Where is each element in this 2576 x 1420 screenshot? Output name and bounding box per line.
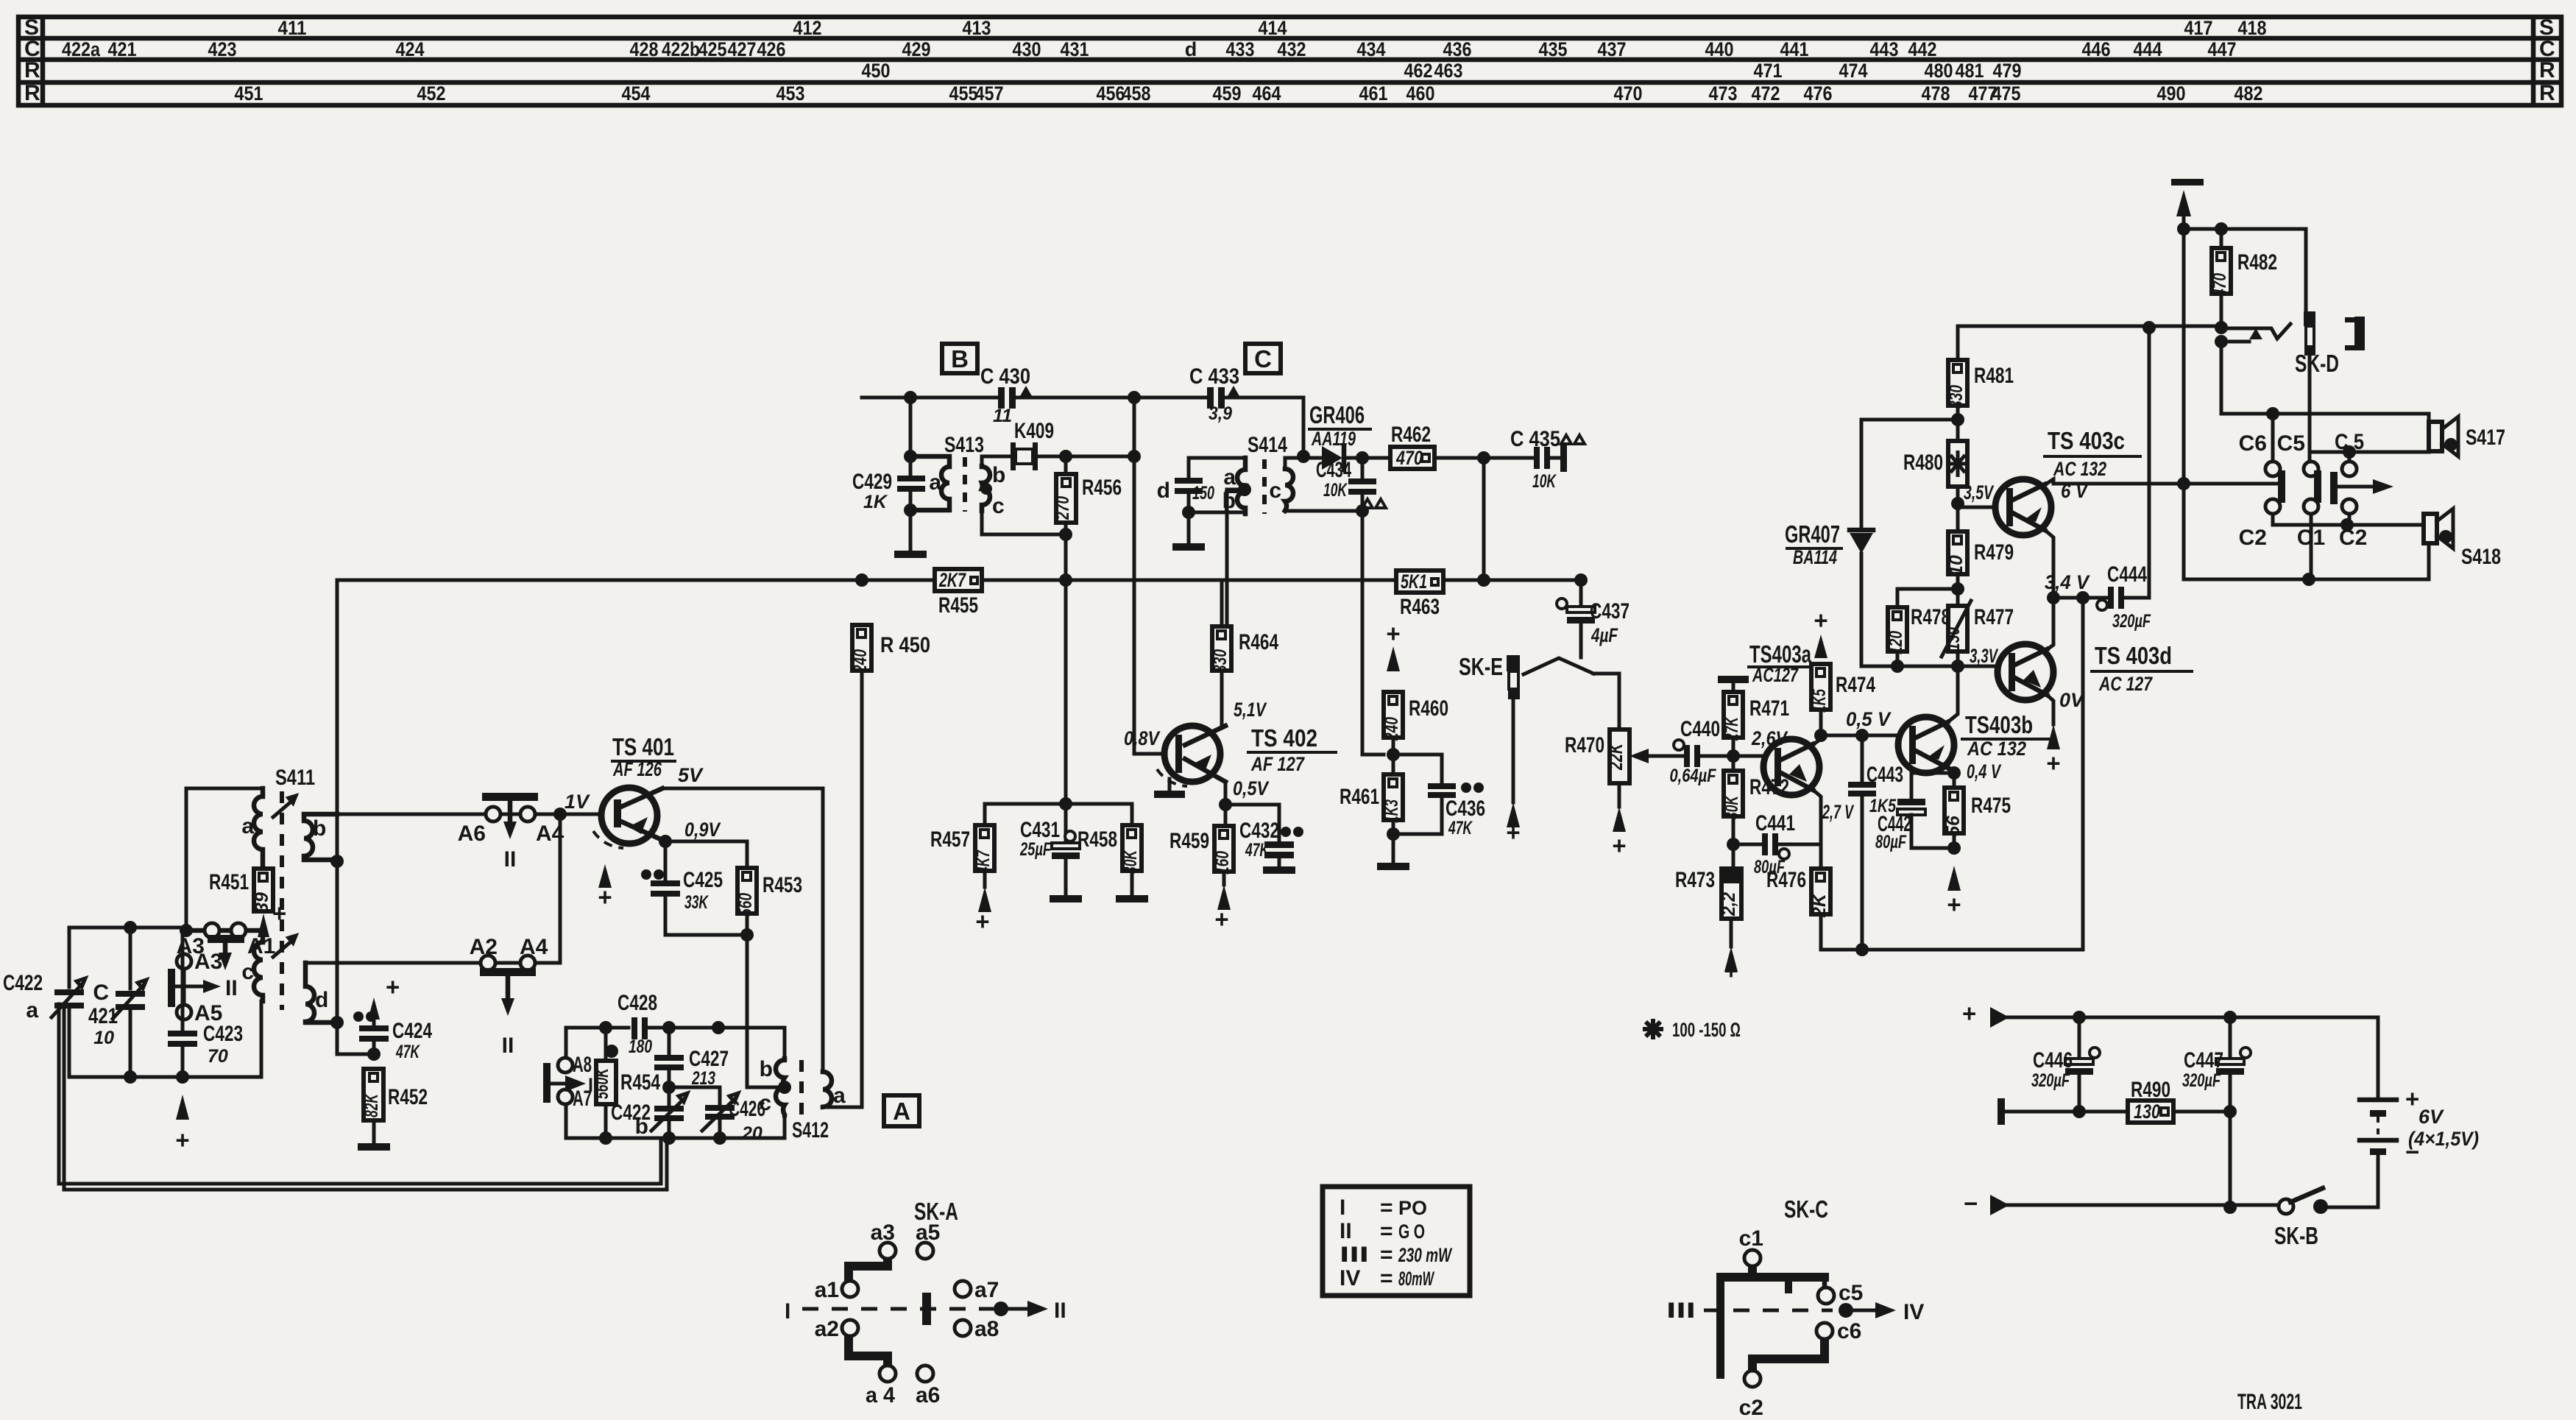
svg-text:476: 476 — [1804, 82, 1833, 105]
diode GR406 (AA119) — [1303, 401, 1370, 470]
svg-text:490: 490 — [2157, 82, 2186, 105]
svg-text:B: B — [951, 345, 969, 372]
svg-text:+: + — [1386, 620, 1400, 647]
potentiometer R477 — [1942, 601, 2014, 657]
resistor R452 — [361, 1069, 428, 1143]
svg-text:3,3V: 3,3V — [1970, 645, 1998, 667]
jack SK-D plug — [2295, 311, 2365, 377]
svg-text:80mW: 80mW — [1398, 1268, 1435, 1290]
svg-text:3,4 V: 3,4 V — [2045, 571, 2090, 593]
capacitor C443 — [1848, 735, 1903, 950]
svg-text:I: I — [1340, 1195, 1345, 1220]
svg-text:SK-C: SK-C — [1784, 1195, 1828, 1223]
svg-text:0,4 V: 0,4 V — [1967, 760, 2001, 783]
svg-text:436: 436 — [1443, 38, 1472, 60]
svg-text:10: 10 — [93, 1028, 114, 1048]
supply arrow below R475 — [1947, 866, 1961, 892]
svg-text:C: C — [1254, 345, 1272, 372]
svg-text:+: + — [272, 900, 286, 927]
svg-text:+: + — [2405, 1085, 2419, 1112]
wire: R478 branch — [1897, 589, 1958, 607]
svg-text:C440: C440 — [1680, 717, 1720, 741]
electrolytic capacitor C436 — [1393, 755, 1485, 838]
svg-text:A: A — [893, 1098, 910, 1125]
svg-text:+: + — [1612, 832, 1626, 859]
connector C5 right — [2342, 462, 2357, 476]
svg-text:R471: R471 — [1749, 696, 1789, 721]
svg-text:429: 429 — [902, 38, 931, 60]
svg-text:0,8V: 0,8V — [1124, 727, 1161, 749]
resistor R462 (470) — [1362, 423, 1484, 580]
svg-text:SK-E: SK-E — [1459, 653, 1503, 680]
svg-text:+: + — [175, 1126, 189, 1154]
svg-text:R480: R480 — [1903, 451, 1943, 475]
svg-text:39: 39 — [252, 892, 272, 913]
svg-text:R457: R457 — [930, 827, 970, 852]
capacitor C427 — [654, 1028, 729, 1104]
oscillator loop bottom rail — [566, 1119, 785, 1138]
svg-text:2,2: 2,2 — [1719, 892, 1739, 916]
svg-text:464: 464 — [1253, 82, 1281, 105]
svg-text:451: 451 — [235, 82, 263, 105]
supply arrow below R457 — [978, 887, 991, 912]
connector C6 — [2265, 462, 2280, 476]
svg-text:c1: c1 — [1739, 1226, 1763, 1251]
svg-text:C444: C444 — [2107, 562, 2147, 587]
svg-text:25µF: 25µF — [1019, 839, 1051, 860]
svg-text:S414: S414 — [1248, 433, 1287, 457]
resistor R474 — [1809, 664, 1875, 735]
svg-text:R 450: R 450 — [880, 633, 930, 657]
svg-text:R476: R476 — [1766, 868, 1806, 892]
switch SK-B — [2274, 1188, 2328, 1249]
wire: C431 rail — [985, 802, 1132, 806]
transistor TS403b — [1898, 711, 2053, 773]
svg-text:444: 444 — [2134, 38, 2162, 60]
svg-text:475: 475 — [1992, 82, 2021, 105]
svg-text:IV: IV — [1340, 1266, 1360, 1290]
transformer S412 coils b/c — [776, 1059, 785, 1115]
minus terminal feeding top rail — [2171, 179, 2204, 186]
wire: TS403a base — [1731, 755, 1764, 758]
svg-text:3,9: 3,9 — [1209, 403, 1232, 424]
svg-text:TRA 3021: TRA 3021 — [2237, 1390, 2302, 1414]
selector bar arrow II at A8/A7 — [543, 1063, 551, 1103]
resistor R475 — [1943, 788, 2011, 848]
svg-text:−: − — [2405, 1138, 2419, 1165]
svg-text:AC 132: AC 132 — [1967, 738, 2026, 760]
switch contact A3/A1 — [205, 923, 219, 938]
terminal T bar mid rail — [1998, 1098, 2005, 1125]
svg-text:461: 461 — [1359, 82, 1388, 105]
capacitor C441 — [1733, 811, 1820, 877]
svg-text:482: 482 — [2234, 82, 2263, 105]
transformer S413 coils b/c — [982, 466, 990, 511]
svg-text:150: 150 — [1192, 483, 1214, 504]
wire: TS403b emitter node — [1945, 764, 1954, 788]
svg-text:S418: S418 — [2461, 545, 2501, 569]
wire: speaker S417 bottom line — [2349, 451, 2429, 454]
svg-text:AA119: AA119 — [1311, 428, 1356, 450]
svg-text:454: 454 — [622, 82, 651, 105]
svg-text:10K: 10K — [1532, 471, 1557, 492]
svg-text:422a: 422a — [62, 38, 101, 60]
switch diagram SK-C — [1666, 1195, 1924, 1420]
svg-text:4K7: 4K7 — [973, 849, 994, 874]
svg-text:440: 440 — [1705, 38, 1734, 60]
svg-text:R460: R460 — [1409, 696, 1448, 721]
svg-text:a: a — [241, 814, 254, 838]
battery 6V — [2360, 1085, 2479, 1207]
svg-text:453: 453 — [776, 82, 805, 105]
svg-text:100 -150 Ω: 100 -150 Ω — [1672, 1019, 1741, 1041]
wire: speaker top line — [2221, 339, 2429, 414]
svg-text:C424: C424 — [392, 1019, 432, 1043]
svg-text:425: 425 — [698, 38, 727, 60]
svg-text:427: 427 — [728, 38, 757, 60]
arrow output — [2338, 485, 2376, 489]
svg-text:R453: R453 — [762, 873, 802, 897]
S413 core (dashed) — [963, 457, 967, 512]
svg-text:412: 412 — [793, 17, 822, 39]
wire: 3.4V output node — [2053, 596, 2106, 600]
resistor R460 — [1381, 620, 1448, 774]
transformer S412 coil a — [823, 1072, 832, 1107]
svg-text:IV: IV — [1903, 1300, 1924, 1324]
svg-text:320µF: 320µF — [2182, 1070, 2221, 1091]
svg-text:+: + — [386, 973, 400, 1000]
svg-text:47K: 47K — [1245, 840, 1270, 861]
potentiometer R470 (22K) — [1565, 730, 1662, 859]
wire: SK-E to R470 — [1593, 674, 1619, 730]
wire: TS401 collector to S412 — [662, 788, 823, 1072]
supply arrow below R451 — [258, 914, 269, 937]
svg-text:TS403b: TS403b — [1965, 711, 2033, 738]
wire: bottom rail — [2008, 1155, 2378, 1207]
svg-text:S412: S412 — [792, 1118, 829, 1142]
svg-text:4µF: 4µF — [1590, 624, 1618, 646]
transistor TS401 — [565, 733, 721, 848]
svg-text:C: C — [93, 981, 109, 1005]
node: A3 row junction — [180, 924, 193, 937]
wire: TS403d collector up to 3.4V node — [2045, 598, 2053, 651]
S411 coil c — [186, 930, 263, 1001]
svg-text:C425: C425 — [683, 868, 723, 892]
svg-text:C428: C428 — [618, 991, 657, 1015]
node: R452 top — [367, 1048, 381, 1061]
wire: TS403c emitter to 3.4V node — [2043, 529, 2053, 598]
supply arrow at TS401 emitter — [598, 864, 612, 889]
node: base junction — [553, 808, 567, 821]
svg-text:G O: G O — [1398, 1221, 1425, 1243]
svg-text:C447: C447 — [2184, 1048, 2223, 1073]
wire: TS402 emitter node — [1225, 782, 1279, 841]
S411 coil d — [305, 963, 336, 1022]
component location table — [18, 15, 2561, 105]
svg-text:C441: C441 — [1755, 811, 1795, 836]
jack SK-D switch lever — [2215, 335, 2228, 348]
variable capacitor C422 a — [3, 971, 85, 1022]
svg-text:430: 430 — [1013, 38, 1041, 60]
svg-text:0,5V: 0,5V — [1233, 777, 1270, 799]
svg-text:TS 403d: TS 403d — [2095, 642, 2172, 669]
svg-text:460: 460 — [1406, 82, 1435, 105]
svg-text:c: c — [241, 960, 254, 984]
box B — [942, 344, 977, 373]
resistor R482 — [2209, 229, 2277, 328]
svg-text:BA114: BA114 — [1793, 546, 1837, 568]
svg-text:c: c — [992, 494, 1005, 518]
resistor R490 (130) — [2128, 1078, 2173, 1123]
svg-text:R: R — [2539, 58, 2555, 82]
svg-text:−: − — [1964, 1190, 1978, 1217]
svg-text:434: 434 — [1357, 38, 1386, 60]
connector C1 — [2304, 499, 2318, 514]
svg-text:d: d — [315, 988, 328, 1012]
svg-text:a2: a2 — [815, 1317, 839, 1341]
svg-text:+: + — [1962, 1000, 1976, 1027]
svg-text:437: 437 — [1598, 38, 1627, 60]
svg-text:471: 471 — [1754, 60, 1783, 82]
svg-text:423: 423 — [208, 38, 237, 60]
svg-text:A1: A1 — [247, 934, 275, 958]
box C — [1245, 344, 1281, 373]
svg-text:0,64µF: 0,64µF — [1670, 766, 1717, 786]
capacitor C430 — [980, 364, 1032, 426]
supply arrow below tuning loop — [176, 1095, 189, 1131]
svg-text:481: 481 — [1956, 60, 1984, 82]
svg-text:5V: 5V — [678, 764, 704, 786]
wire: TS401 emitter node — [665, 841, 747, 880]
svg-text:R475: R475 — [1971, 794, 2011, 818]
svg-text:S413: S413 — [944, 433, 984, 457]
ground at TS402 — [1168, 779, 1172, 791]
note: star 100-150 ohm — [1643, 1019, 1741, 1041]
speaker S418 — [2424, 509, 2501, 579]
svg-text:c: c — [1269, 478, 1281, 503]
svg-text:462: 462 — [1404, 60, 1433, 82]
wire: S413 primary feed — [909, 398, 913, 551]
svg-text:180: 180 — [629, 1036, 652, 1057]
svg-text:433: 433 — [1226, 38, 1255, 60]
wire: tuning rail top — [69, 926, 186, 930]
svg-text:447: 447 — [2208, 38, 2237, 60]
svg-text:R455: R455 — [938, 593, 978, 618]
svg-text:III: III — [1666, 1299, 1696, 1323]
ground below R452 — [358, 1143, 390, 1151]
svg-text:452: 452 — [417, 82, 446, 105]
capacitor C440 — [1662, 717, 1731, 786]
wire: S412 a bottom to R450 line — [823, 671, 862, 1107]
svg-text:320µF: 320µF — [2031, 1070, 2070, 1091]
svg-text:A3: A3 — [194, 950, 222, 974]
svg-text:I: I — [785, 1299, 790, 1324]
svg-text:C429: C429 — [852, 470, 892, 494]
resistor R471 — [1722, 692, 1789, 771]
svg-text:TS 402: TS 402 — [1251, 724, 1317, 752]
svg-text:70: 70 — [208, 1046, 228, 1067]
contact A5 (open) — [177, 1005, 191, 1020]
ground below C429 — [894, 551, 927, 558]
svg-text:II: II — [225, 976, 238, 1000]
svg-text:II: II — [1054, 1299, 1066, 1323]
svg-text:418: 418 — [2238, 17, 2267, 39]
svg-text:AF 127: AF 127 — [1250, 753, 1305, 775]
oscillator left edge + A8/A7 contacts — [565, 1028, 568, 1138]
svg-text:c2: c2 — [1739, 1396, 1763, 1420]
resistor R455 (2K7) — [935, 569, 982, 618]
S411 coil b — [304, 814, 337, 860]
svg-text:R: R — [24, 58, 40, 82]
svg-text:b: b — [635, 1115, 648, 1139]
svg-text:II: II — [502, 1034, 514, 1058]
connector pin bar C6 — [2278, 470, 2285, 503]
svg-text:450: 450 — [862, 60, 891, 82]
svg-text:47K: 47K — [1448, 818, 1473, 838]
capacitor C434 — [1316, 458, 1386, 755]
resistor R461 — [1340, 774, 1409, 870]
switch contact A2/A4 (circles + bar + arrow II) — [481, 956, 495, 970]
connector C2 left — [2265, 499, 2280, 514]
svg-text:421: 421 — [108, 38, 137, 60]
svg-text:R461: R461 — [1340, 785, 1379, 809]
node: C425 dot top of R454 — [605, 1045, 618, 1058]
wire: S414 tap down to R464 — [1227, 490, 1245, 625]
svg-text:R462: R462 — [1391, 423, 1431, 447]
svg-text:413: 413 — [963, 17, 991, 39]
capacitor C444 — [2097, 328, 2151, 632]
svg-text:463: 463 — [1434, 60, 1463, 82]
transistor TS403c — [1995, 427, 2140, 535]
electrolytic capacitor C447 — [2182, 1017, 2251, 1207]
svg-text:C423: C423 — [203, 1022, 243, 1046]
supply arrow below R473 — [1724, 947, 1738, 972]
wire: S418 top line — [2347, 523, 2424, 527]
svg-text:III: III — [1340, 1243, 1369, 1267]
svg-text:C5: C5 — [2277, 431, 2305, 456]
wire: antenna loop top — [186, 788, 263, 928]
svg-text:C 435: C 435 — [1510, 427, 1560, 451]
svg-text:424: 424 — [396, 38, 425, 60]
svg-text:a: a — [26, 998, 38, 1022]
svg-text:c5: c5 — [1839, 1281, 1863, 1305]
svg-text:479: 479 — [1993, 60, 2022, 82]
svg-text:C2: C2 — [2239, 526, 2267, 550]
capacitor C428 — [618, 991, 657, 1057]
capacitor C435 — [1484, 427, 1585, 492]
svg-text:414: 414 — [1259, 17, 1287, 39]
svg-text:442: 442 — [1908, 38, 1937, 60]
svg-text:AC 132: AC 132 — [2053, 458, 2106, 480]
wire: TS403a emitter down — [1811, 788, 1821, 869]
svg-text:456: 456 — [1097, 82, 1125, 105]
transistor TS402 — [1124, 699, 1336, 799]
svg-text:470: 470 — [1395, 447, 1423, 469]
S411 trimmer arrow bottom — [273, 936, 296, 957]
svg-text:C434: C434 — [1316, 458, 1351, 482]
svg-text:417: 417 — [2184, 17, 2213, 39]
svg-text:R459: R459 — [1170, 829, 1209, 853]
capacitor C429 — [852, 470, 925, 512]
electrolytic capacitor C442 — [1875, 773, 1954, 852]
svg-text:426: 426 — [757, 38, 786, 60]
svg-text:20: 20 — [741, 1123, 762, 1144]
svg-text:R: R — [2539, 81, 2555, 105]
svg-text:455: 455 — [949, 82, 978, 105]
svg-text:33K: 33K — [684, 892, 709, 913]
resistor R481 — [1946, 326, 2014, 441]
svg-text:80µF: 80µF — [1875, 832, 1907, 852]
svg-text:R454: R454 — [620, 1070, 660, 1095]
S412 core (dashed) — [799, 1060, 804, 1115]
svg-text:AF 126: AF 126 — [612, 758, 662, 780]
svg-text:R474: R474 — [1836, 673, 1875, 697]
svg-text:5K1: 5K1 — [1401, 571, 1427, 593]
svg-text:R464: R464 — [1239, 630, 1278, 654]
svg-text:47K: 47K — [395, 1042, 420, 1062]
svg-text:R470: R470 — [1565, 733, 1604, 757]
svg-text:2,7 V: 2,7 V — [1822, 801, 1854, 823]
wire: double bus to oscillator — [59, 1004, 667, 1190]
svg-text:S411: S411 — [275, 766, 315, 790]
svg-text:421: 421 — [88, 1004, 118, 1028]
svg-text:a3: a3 — [871, 1221, 895, 1245]
resistor R450 — [850, 625, 930, 674]
svg-text:a: a — [833, 1084, 846, 1108]
svg-text:=: = — [1380, 1195, 1393, 1220]
variable capacitor C421 — [88, 928, 146, 1077]
svg-text:C446: C446 — [2033, 1048, 2073, 1073]
svg-text:+: + — [975, 908, 989, 935]
svg-text:560K: 560K — [592, 1067, 612, 1099]
svg-text:a 4: a 4 — [866, 1383, 895, 1407]
wire: tuning left vertical — [68, 928, 71, 1077]
resistor R476 — [1766, 868, 2083, 950]
svg-text:11: 11 — [993, 406, 1012, 426]
svg-text:TS 403c: TS 403c — [2048, 427, 2125, 454]
transformer S413 coil a — [910, 456, 949, 510]
svg-text:213: 213 — [691, 1068, 715, 1089]
wire: 6V vertical — [2184, 229, 2429, 579]
svg-text:=: = — [1380, 1243, 1393, 1267]
wire: TS403c base — [1958, 506, 1995, 509]
svg-text:C437: C437 — [1590, 599, 1630, 624]
svg-text:443: 443 — [1870, 38, 1899, 60]
variable capacitor C426 — [702, 1087, 765, 1144]
svg-text:d: d — [1157, 478, 1170, 503]
connector C5 left — [2304, 462, 2318, 476]
svg-text:478: 478 — [1922, 82, 1950, 105]
svg-text:446: 446 — [2082, 38, 2111, 60]
wire: IF top rail — [862, 398, 1303, 458]
svg-text:+: + — [1214, 905, 1228, 933]
svg-text:a7: a7 — [974, 1278, 999, 1302]
svg-text:C 433: C 433 — [1189, 364, 1239, 389]
electrolytic capacitor C431 — [1019, 804, 1082, 902]
wire: TS403d emitter — [2045, 693, 2053, 724]
wire: bottom rail of tuning loop — [69, 1075, 261, 1079]
svg-text:a: a — [929, 470, 941, 495]
electrolytic capacitor C425 — [641, 868, 723, 935]
resistor R464 — [1210, 580, 1278, 725]
svg-text:R: R — [24, 81, 40, 105]
svg-text:480: 480 — [1925, 60, 1953, 82]
svg-text:230 mW: 230 mW — [1398, 1244, 1452, 1266]
resistor R451 — [209, 869, 273, 913]
svg-text:C422: C422 — [3, 971, 43, 995]
resistor R458 — [1078, 804, 1148, 902]
contact A3 (open) — [177, 954, 191, 969]
